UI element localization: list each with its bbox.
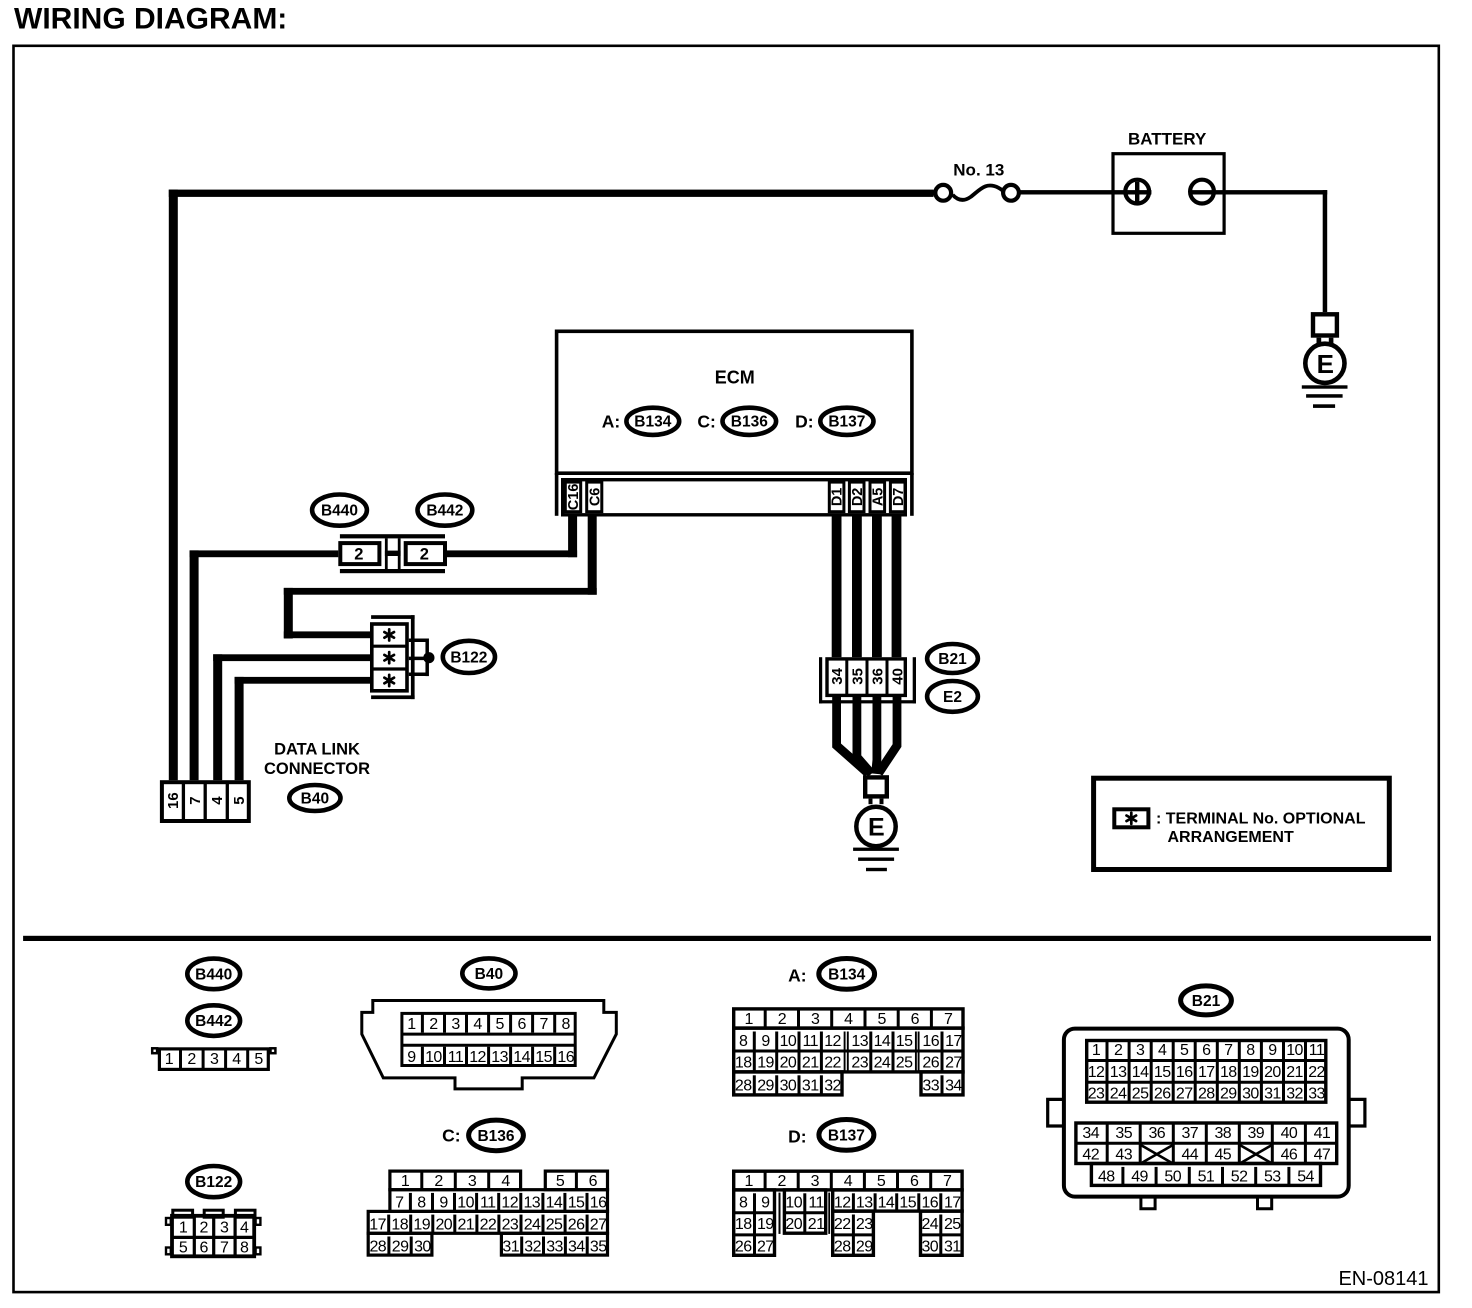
- svg-text:7: 7: [1224, 1042, 1233, 1059]
- svg-text:11: 11: [480, 1195, 496, 1212]
- svg-text:18: 18: [735, 1216, 752, 1233]
- svg-text:10: 10: [785, 1195, 802, 1212]
- svg-text:26: 26: [1154, 1086, 1171, 1103]
- svg-text:12: 12: [469, 1049, 486, 1066]
- svg-text:7: 7: [943, 1173, 952, 1190]
- svg-text:BATTERY: BATTERY: [1128, 130, 1207, 149]
- svg-text:E: E: [868, 814, 885, 842]
- svg-text:24: 24: [874, 1054, 891, 1071]
- svg-text:26: 26: [922, 1054, 939, 1071]
- pin D1: [829, 482, 845, 512]
- svg-text:35: 35: [849, 668, 866, 685]
- svg-text:27: 27: [757, 1239, 774, 1256]
- svg-text:2: 2: [200, 1219, 209, 1236]
- svg-text:B40: B40: [475, 966, 503, 983]
- svg-text:19: 19: [757, 1216, 774, 1233]
- svg-text:1: 1: [179, 1219, 188, 1236]
- svg-text:14: 14: [1132, 1064, 1149, 1081]
- svg-text:1: 1: [165, 1051, 174, 1068]
- svg-text:31: 31: [502, 1238, 519, 1255]
- svg-text:17: 17: [1198, 1064, 1215, 1081]
- svg-text:CONNECTOR: CONNECTOR: [264, 760, 370, 778]
- svg-text:12: 12: [824, 1033, 841, 1050]
- svg-text:7: 7: [395, 1195, 404, 1212]
- wire pin7 to connector B440: [190, 550, 339, 780]
- svg-text:21: 21: [802, 1054, 819, 1071]
- svg-text:13: 13: [856, 1195, 873, 1212]
- svg-text:6: 6: [517, 1016, 526, 1033]
- svg-text:15: 15: [535, 1049, 552, 1066]
- svg-text:D:: D:: [795, 412, 813, 432]
- svg-text:B122: B122: [195, 1174, 232, 1191]
- connector label B136 (ECM C): [723, 408, 777, 435]
- svg-text:A:: A:: [788, 966, 806, 986]
- svg-text:8: 8: [739, 1033, 748, 1050]
- svg-text:29: 29: [392, 1238, 409, 1255]
- svg-text:B137: B137: [828, 1127, 865, 1144]
- svg-text:No. 13: No. 13: [953, 160, 1004, 179]
- svg-text:19: 19: [413, 1217, 430, 1234]
- fuse No. 13: [935, 160, 1019, 200]
- connector label B134 (pinout): [819, 959, 875, 990]
- wire terminal 35 to ground junction: [857, 697, 872, 774]
- svg-text:41: 41: [1314, 1125, 1331, 1142]
- connector label B137 (ECM D): [820, 408, 873, 435]
- svg-text:20: 20: [435, 1217, 452, 1234]
- svg-text:21: 21: [808, 1216, 825, 1233]
- ECM pin row: [563, 480, 906, 515]
- pin C6: [587, 482, 604, 512]
- connector label B442 (pinout): [187, 1005, 240, 1036]
- svg-text:2: 2: [434, 1173, 443, 1190]
- svg-text:8: 8: [739, 1195, 748, 1212]
- svg-text:34: 34: [568, 1238, 585, 1255]
- svg-text:50: 50: [1164, 1168, 1181, 1185]
- svg-text:31: 31: [802, 1078, 819, 1095]
- svg-text:2: 2: [778, 1011, 787, 1028]
- svg-text:48: 48: [1098, 1168, 1115, 1185]
- connector label B122 (pinout): [187, 1166, 240, 1197]
- svg-text:B442: B442: [426, 503, 463, 520]
- svg-text:5: 5: [495, 1016, 504, 1033]
- svg-text:3: 3: [1136, 1042, 1145, 1059]
- svg-text:24: 24: [921, 1216, 938, 1233]
- svg-text:21: 21: [1286, 1064, 1303, 1081]
- svg-text:31: 31: [1264, 1086, 1281, 1103]
- svg-text:C:: C:: [442, 1126, 460, 1146]
- svg-text:16: 16: [590, 1195, 607, 1212]
- connector label B40 (pinout): [462, 958, 515, 988]
- svg-text:27: 27: [945, 1054, 962, 1071]
- svg-text:12: 12: [501, 1195, 518, 1212]
- svg-text:25: 25: [944, 1216, 961, 1233]
- svg-text:36: 36: [1148, 1125, 1165, 1142]
- svg-text:E2: E2: [943, 689, 962, 706]
- ECM module: [555, 331, 914, 516]
- svg-text:12: 12: [1088, 1064, 1105, 1081]
- svg-text:B137: B137: [828, 414, 865, 431]
- svg-text:22: 22: [824, 1054, 841, 1071]
- svg-text:35: 35: [1115, 1125, 1132, 1142]
- connector label B136 (pinout): [469, 1120, 524, 1151]
- svg-text:9: 9: [439, 1195, 448, 1212]
- svg-text:1: 1: [1092, 1042, 1101, 1059]
- connector label B442: [418, 495, 473, 526]
- svg-text:32: 32: [1286, 1086, 1303, 1103]
- battery: [1113, 130, 1224, 234]
- svg-text:6: 6: [910, 1173, 919, 1190]
- svg-text:35: 35: [590, 1238, 607, 1255]
- svg-text:5: 5: [877, 1011, 886, 1028]
- svg-text:10: 10: [780, 1033, 797, 1050]
- svg-text:33: 33: [546, 1238, 563, 1255]
- svg-text:ECM: ECM: [715, 368, 755, 388]
- svg-text:7: 7: [187, 796, 204, 804]
- svg-text:30: 30: [1242, 1086, 1259, 1103]
- wire fuse to battery plus: [1019, 190, 1152, 194]
- svg-text:B440: B440: [321, 503, 358, 520]
- svg-text:B442: B442: [195, 1013, 232, 1030]
- svg-text:4: 4: [232, 1051, 241, 1068]
- svg-text:40: 40: [1281, 1125, 1298, 1142]
- svg-text:11: 11: [808, 1195, 824, 1212]
- pin D7: [890, 482, 906, 512]
- connector B40 pin box (pins 16 7 4 5): [162, 782, 249, 821]
- svg-text:3: 3: [210, 1051, 219, 1068]
- connector B137 pinout grid: [734, 1171, 962, 1255]
- svg-text:17: 17: [944, 1195, 961, 1212]
- svg-text:19: 19: [757, 1054, 774, 1071]
- svg-text:20: 20: [1264, 1064, 1281, 1081]
- connector label E2: [927, 681, 978, 712]
- connector B122 pinout (pins 1-8): [166, 1210, 260, 1256]
- svg-text:6: 6: [1202, 1042, 1211, 1059]
- svg-text:2: 2: [187, 1051, 196, 1068]
- svg-text:26: 26: [735, 1239, 752, 1256]
- svg-text:2: 2: [354, 546, 363, 564]
- wire C6 to B122 pin1: [284, 515, 597, 639]
- svg-text:33: 33: [1308, 1086, 1325, 1103]
- svg-text:49: 49: [1131, 1168, 1148, 1185]
- svg-text:B21: B21: [1192, 993, 1221, 1010]
- svg-text:8: 8: [562, 1016, 571, 1033]
- svg-text:15: 15: [896, 1033, 913, 1050]
- svg-text:32: 32: [824, 1078, 841, 1095]
- connector B442 pinout (pins 1-5): [152, 1048, 275, 1069]
- svg-text:2: 2: [1114, 1042, 1123, 1059]
- svg-text:3: 3: [220, 1219, 229, 1236]
- svg-text:30: 30: [921, 1239, 938, 1256]
- svg-text:42: 42: [1082, 1147, 1099, 1164]
- svg-text:6: 6: [200, 1240, 209, 1257]
- svg-text:3: 3: [811, 1011, 820, 1028]
- svg-text:19: 19: [1242, 1064, 1259, 1081]
- svg-text:20: 20: [785, 1216, 802, 1233]
- connector B21/E2 terminal box (34 35 36 40): [819, 657, 916, 703]
- wire B122 bracket to junction dot: [409, 639, 435, 677]
- svg-text:9: 9: [761, 1195, 770, 1212]
- svg-text:37: 37: [1181, 1125, 1198, 1142]
- svg-text:13: 13: [851, 1033, 868, 1050]
- svg-text:9: 9: [1268, 1042, 1277, 1059]
- svg-text:14: 14: [878, 1195, 895, 1212]
- svg-text:16: 16: [557, 1049, 574, 1066]
- svg-text:28: 28: [1198, 1086, 1215, 1103]
- pin D2: [849, 482, 865, 512]
- svg-text:3: 3: [468, 1173, 477, 1190]
- svg-text:28: 28: [369, 1238, 386, 1255]
- svg-text:18: 18: [735, 1054, 752, 1071]
- svg-text:9: 9: [407, 1049, 416, 1066]
- note text: [1156, 811, 1366, 847]
- data link connector label: [264, 741, 370, 778]
- svg-text:5: 5: [254, 1051, 263, 1068]
- svg-text:B21: B21: [938, 651, 967, 668]
- svg-text:14: 14: [546, 1195, 563, 1212]
- svg-text:6: 6: [911, 1011, 920, 1028]
- svg-text:14: 14: [513, 1049, 530, 1066]
- svg-text:23: 23: [851, 1054, 868, 1071]
- svg-text:29: 29: [757, 1078, 774, 1095]
- wire pin5 to B122 pin3: [235, 677, 370, 780]
- pin * (B122 pin1 optional): [384, 629, 394, 640]
- svg-text:B122: B122: [450, 649, 487, 666]
- connector B21 pinout body: [1048, 1029, 1365, 1209]
- svg-text:C6: C6: [587, 488, 603, 507]
- svg-text:15: 15: [568, 1195, 585, 1212]
- svg-text:29: 29: [1220, 1086, 1237, 1103]
- svg-text:9: 9: [761, 1033, 770, 1050]
- svg-text:B134: B134: [828, 966, 865, 983]
- svg-text:E: E: [1317, 349, 1334, 379]
- svg-text:8: 8: [240, 1240, 249, 1257]
- svg-text:26: 26: [568, 1217, 585, 1234]
- connector B40 pinout (OBD port pins 1-16): [362, 1001, 617, 1089]
- connector pair B440/B442: [340, 534, 445, 573]
- svg-text:1: 1: [744, 1011, 753, 1028]
- svg-text:46: 46: [1281, 1147, 1298, 1164]
- svg-text:D7: D7: [891, 488, 907, 507]
- svg-text:30: 30: [780, 1078, 797, 1095]
- connector B122 body: [371, 615, 415, 699]
- svg-text:11: 11: [448, 1049, 464, 1066]
- svg-text:47: 47: [1314, 1147, 1331, 1164]
- svg-text:5: 5: [231, 796, 248, 804]
- svg-text:39: 39: [1247, 1125, 1264, 1142]
- svg-text:44: 44: [1181, 1147, 1198, 1164]
- connector label B40: [289, 785, 340, 811]
- svg-text:B40: B40: [301, 790, 329, 807]
- svg-text:4: 4: [501, 1173, 510, 1190]
- svg-text:4: 4: [1158, 1042, 1167, 1059]
- svg-text:8: 8: [417, 1195, 426, 1212]
- wire C16 to connector B440/B442: [447, 515, 577, 557]
- pin C16: [565, 482, 582, 512]
- wire A5 to terminal 36: [872, 515, 882, 657]
- svg-text:7: 7: [539, 1016, 548, 1033]
- svg-text:A5: A5: [870, 488, 886, 507]
- connector B136 pinout grid: [368, 1171, 607, 1255]
- svg-text:52: 52: [1231, 1168, 1248, 1185]
- connector label B440: [312, 495, 367, 526]
- connector B21 pins 1-33: [1087, 1041, 1326, 1103]
- svg-text:3: 3: [811, 1173, 820, 1190]
- svg-text:11: 11: [802, 1033, 818, 1050]
- pin * (B122 pin3 optional): [384, 675, 394, 686]
- svg-text:3: 3: [451, 1016, 460, 1033]
- wire battery positive bus (pin16 to fuse): [169, 190, 934, 781]
- svg-text:B134: B134: [634, 414, 671, 431]
- svg-text:10: 10: [425, 1049, 442, 1066]
- connector B21 pins 48-54: [1091, 1164, 1320, 1186]
- svg-text:B136: B136: [731, 414, 768, 431]
- svg-text:10: 10: [457, 1195, 474, 1212]
- svg-text:29: 29: [856, 1239, 873, 1256]
- svg-text:27: 27: [590, 1217, 607, 1234]
- wire D1 to terminal 34: [832, 515, 842, 657]
- wire terminal 36 to ground junction: [876, 697, 877, 774]
- svg-text:25: 25: [1132, 1086, 1149, 1103]
- svg-text:B440: B440: [195, 966, 232, 983]
- svg-text:D1: D1: [830, 488, 846, 507]
- svg-text:13: 13: [1110, 1064, 1127, 1081]
- svg-text:DATA LINK: DATA LINK: [274, 741, 360, 759]
- svg-text:22: 22: [1308, 1064, 1325, 1081]
- svg-text:5: 5: [877, 1173, 886, 1190]
- svg-text:16: 16: [1176, 1064, 1193, 1081]
- svg-text:1: 1: [407, 1016, 416, 1033]
- svg-text:4: 4: [240, 1219, 249, 1236]
- wire terminal 40 to ground junction: [879, 697, 897, 773]
- svg-text:28: 28: [735, 1078, 752, 1095]
- pin * (note symbol): [1127, 813, 1137, 824]
- svg-text:31: 31: [944, 1239, 961, 1256]
- svg-text:5: 5: [1180, 1042, 1189, 1059]
- svg-text:16: 16: [165, 792, 182, 809]
- svg-text:25: 25: [546, 1217, 563, 1234]
- wire battery minus to ground E: [1214, 190, 1327, 312]
- svg-text:10: 10: [1286, 1042, 1303, 1059]
- svg-text:13: 13: [523, 1195, 540, 1212]
- svg-text:B136: B136: [477, 1128, 514, 1145]
- svg-text:32: 32: [524, 1238, 541, 1255]
- svg-text:25: 25: [896, 1054, 913, 1071]
- svg-text:5: 5: [179, 1240, 188, 1257]
- divider line between schematic and pinouts: [23, 936, 1431, 941]
- svg-text:2: 2: [778, 1173, 787, 1190]
- svg-text:45: 45: [1214, 1147, 1231, 1164]
- connector label B21 (pinout): [1181, 986, 1232, 1015]
- svg-text:54: 54: [1297, 1168, 1314, 1185]
- svg-text:4: 4: [844, 1173, 853, 1190]
- svg-text:24: 24: [524, 1217, 541, 1234]
- svg-text:2: 2: [420, 546, 429, 564]
- svg-text:4: 4: [473, 1016, 482, 1033]
- svg-text:EN-08141: EN-08141: [1338, 1268, 1428, 1290]
- svg-text:1: 1: [744, 1173, 753, 1190]
- wire D7 to terminal 40: [892, 515, 902, 657]
- svg-text:4: 4: [209, 796, 226, 805]
- ground E (battery side): [1302, 314, 1348, 408]
- svg-text:22: 22: [480, 1217, 497, 1234]
- svg-text:13: 13: [491, 1049, 508, 1066]
- svg-text:14: 14: [874, 1033, 891, 1050]
- svg-text:30: 30: [414, 1238, 431, 1255]
- svg-text:21: 21: [457, 1217, 474, 1234]
- svg-text:18: 18: [1220, 1064, 1237, 1081]
- svg-text:43: 43: [1115, 1147, 1132, 1164]
- wire pin4 to B122 pin2: [213, 654, 370, 780]
- svg-text:34: 34: [945, 1078, 962, 1095]
- connector label B122: [443, 641, 495, 673]
- svg-text:7: 7: [944, 1011, 953, 1028]
- svg-text:D2: D2: [850, 488, 866, 507]
- pin * (B122 pin2 optional): [384, 652, 394, 663]
- svg-text:23: 23: [856, 1216, 873, 1233]
- svg-text:34: 34: [829, 667, 846, 684]
- svg-text:18: 18: [391, 1217, 408, 1234]
- svg-text:40: 40: [890, 668, 907, 685]
- svg-text:15: 15: [1154, 1064, 1171, 1081]
- connector B134 pinout grid: [734, 1009, 963, 1095]
- svg-text:2: 2: [429, 1016, 438, 1033]
- note terminal optional arrangement: [1094, 778, 1390, 869]
- svg-text:11: 11: [1309, 1042, 1325, 1059]
- svg-text:C:: C:: [697, 412, 715, 432]
- svg-text:17: 17: [369, 1217, 386, 1234]
- svg-text:23: 23: [502, 1217, 519, 1234]
- svg-text:7: 7: [220, 1240, 229, 1257]
- svg-text:15: 15: [899, 1195, 916, 1212]
- svg-text:34: 34: [1082, 1125, 1099, 1142]
- svg-text:16: 16: [922, 1033, 939, 1050]
- svg-text:ARRANGEMENT: ARRANGEMENT: [1168, 829, 1294, 846]
- pin A5: [870, 482, 886, 512]
- svg-text:38: 38: [1214, 1125, 1231, 1142]
- svg-text:17: 17: [945, 1033, 962, 1050]
- svg-text:36: 36: [869, 668, 886, 685]
- svg-text:8: 8: [1246, 1042, 1255, 1059]
- svg-text:12: 12: [834, 1195, 851, 1212]
- connector label B137 (pinout): [819, 1120, 874, 1151]
- svg-text:51: 51: [1198, 1168, 1215, 1185]
- svg-text:16: 16: [921, 1195, 938, 1212]
- svg-text:1: 1: [401, 1173, 410, 1190]
- wire terminal 34 to ground junction: [837, 697, 868, 773]
- svg-text:23: 23: [1088, 1086, 1105, 1103]
- svg-text:53: 53: [1264, 1168, 1281, 1185]
- connector label B134 (ECM A): [626, 408, 679, 435]
- svg-text:28: 28: [834, 1239, 851, 1256]
- svg-text:24: 24: [1110, 1086, 1127, 1103]
- svg-text:33: 33: [922, 1078, 939, 1095]
- wire D2 to terminal 35: [852, 515, 862, 657]
- svg-text:: TERMINAL No. OPTIONAL: : TERMINAL No. OPTIONAL: [1156, 811, 1366, 828]
- svg-text:27: 27: [1176, 1086, 1193, 1103]
- svg-text:4: 4: [844, 1011, 853, 1028]
- svg-text:A:: A:: [602, 412, 620, 432]
- ground E (ECM side): [853, 777, 899, 871]
- svg-text:WIRING DIAGRAM:: WIRING DIAGRAM:: [14, 3, 287, 36]
- connector B21 pins 34-47: [1076, 1123, 1337, 1164]
- svg-text:22: 22: [834, 1216, 851, 1233]
- svg-text:C16: C16: [566, 484, 582, 511]
- connector label B440 (pinout): [187, 959, 240, 990]
- svg-text:D:: D:: [788, 1126, 806, 1146]
- svg-text:6: 6: [589, 1173, 598, 1190]
- connector label B21: [927, 644, 978, 673]
- svg-text:5: 5: [556, 1173, 565, 1190]
